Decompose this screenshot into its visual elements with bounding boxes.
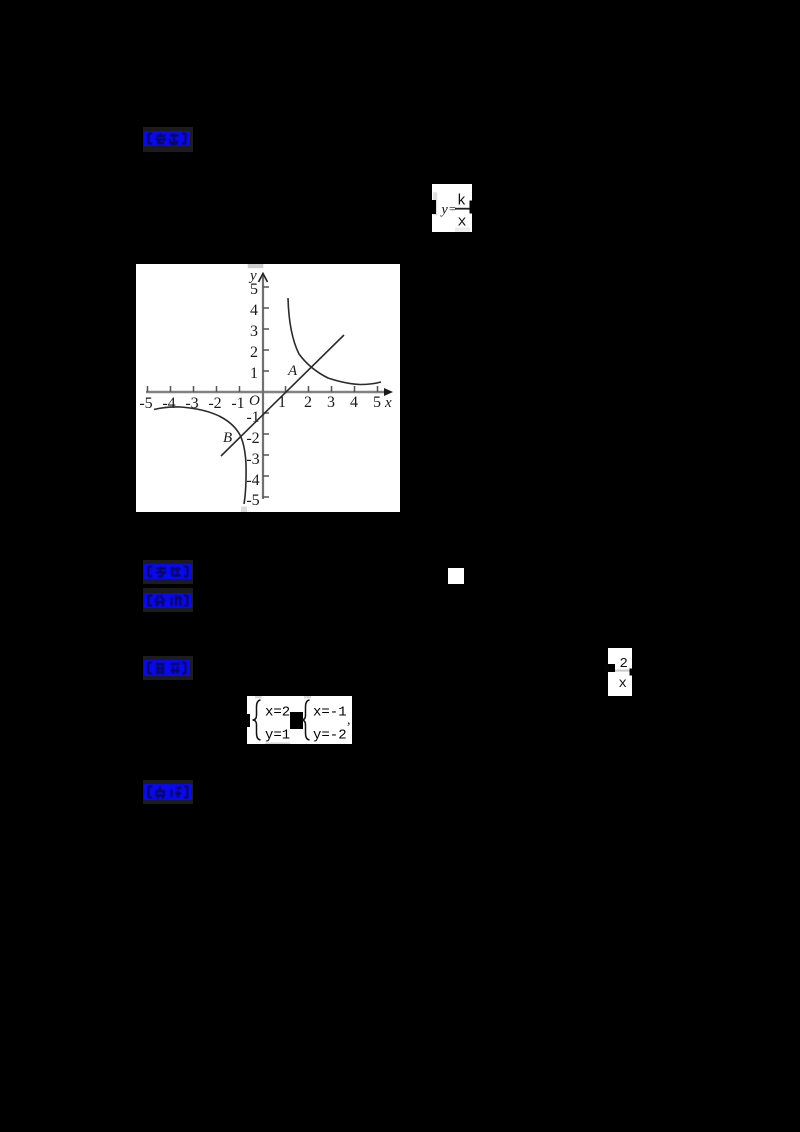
svg-text:y=1: y=1 [265, 727, 290, 743]
right edge blob [630, 669, 633, 676]
svg-text:x=2: x=2 [265, 705, 290, 721]
graph image [136, 264, 400, 512]
axis letter labels [223, 268, 392, 446]
hyperbola Q3 [154, 407, 246, 504]
formula -2/x white image [608, 648, 632, 696]
jpeg smudge bottom [455, 228, 471, 233]
label5 点评 halo [143, 780, 193, 804]
svg-text:O: O [249, 393, 260, 409]
svg-text:x: x [619, 676, 627, 692]
fraction bar [455, 208, 472, 210]
axis number labels [139, 281, 381, 509]
left edge mark [247, 714, 250, 727]
formula y=k/x white image [432, 184, 472, 232]
jpeg smudge top1 [255, 696, 262, 698]
label1 考点 blue block [144, 131, 190, 146]
left clipped glyph [431, 200, 436, 214]
svg-text:k: k [457, 193, 466, 210]
svg-text:x: x [458, 214, 467, 231]
label3 分析 blue block [144, 593, 192, 608]
svg-text:-4: -4 [246, 472, 259, 489]
svg-text:2: 2 [304, 394, 312, 411]
svg-text:4: 4 [250, 302, 258, 319]
jpeg smudge bottom [265, 742, 290, 744]
black blob 和 [290, 712, 303, 729]
minus (overlapping left edge) [604, 664, 615, 672]
jpeg smudge left [433, 192, 437, 215]
label1 考点 halo [143, 127, 193, 152]
label3 分析 halo [143, 588, 193, 612]
svg-text:3: 3 [250, 323, 258, 340]
label4 解答 blue block [144, 660, 190, 676]
svg-text:-2: -2 [208, 395, 221, 412]
x arrow [384, 388, 393, 396]
system of equations white image [247, 696, 352, 744]
jpeg smudge top [248, 264, 264, 268]
x-axis [146, 391, 388, 393]
svg-text:3: 3 [327, 394, 335, 411]
svg-text:-4: -4 [162, 395, 175, 412]
brace 2 [302, 700, 310, 740]
svg-text:y: y [248, 268, 257, 284]
right clipped blob [470, 201, 473, 214]
svg-text:x: x [384, 395, 392, 411]
svg-text:4: 4 [350, 394, 358, 411]
white small square [448, 568, 464, 584]
svg-text:-3: -3 [246, 451, 259, 468]
fraction bar (light) [608, 670, 632, 672]
svg-text:2: 2 [250, 344, 258, 361]
svg-text:-5: -5 [246, 492, 259, 509]
svg-text:-1: -1 [231, 395, 244, 412]
svg-text:x=-1: x=-1 [313, 705, 347, 721]
svg-text:2: 2 [620, 656, 628, 672]
label2 专题 blue block [144, 564, 192, 579]
svg-text:5: 5 [373, 394, 381, 411]
svg-text:-2: -2 [246, 430, 259, 447]
svg-text:1: 1 [250, 365, 258, 382]
svg-text:y=-2: y=-2 [313, 727, 347, 743]
y ticks [263, 287, 269, 497]
svg-text:B: B [223, 430, 232, 446]
label2 专题 halo [143, 560, 193, 584]
y-axis [262, 274, 264, 499]
jpeg smudge top2 [304, 696, 311, 698]
jpeg smudge bottom [241, 507, 247, 513]
svg-text:A: A [287, 363, 298, 379]
brace 1 [253, 700, 261, 740]
y arrow [259, 274, 268, 283]
label4 解答 halo [143, 656, 193, 680]
label5 点评 blue block [144, 784, 192, 800]
svg-text:-5: -5 [139, 395, 152, 412]
hyperbola Q1 [288, 298, 381, 385]
line y=x-1 [221, 335, 344, 456]
svg-text:y: y [440, 203, 449, 218]
x ticks [148, 386, 378, 392]
svg-text:=: = [449, 202, 456, 216]
svg-text:,: , [347, 713, 351, 728]
